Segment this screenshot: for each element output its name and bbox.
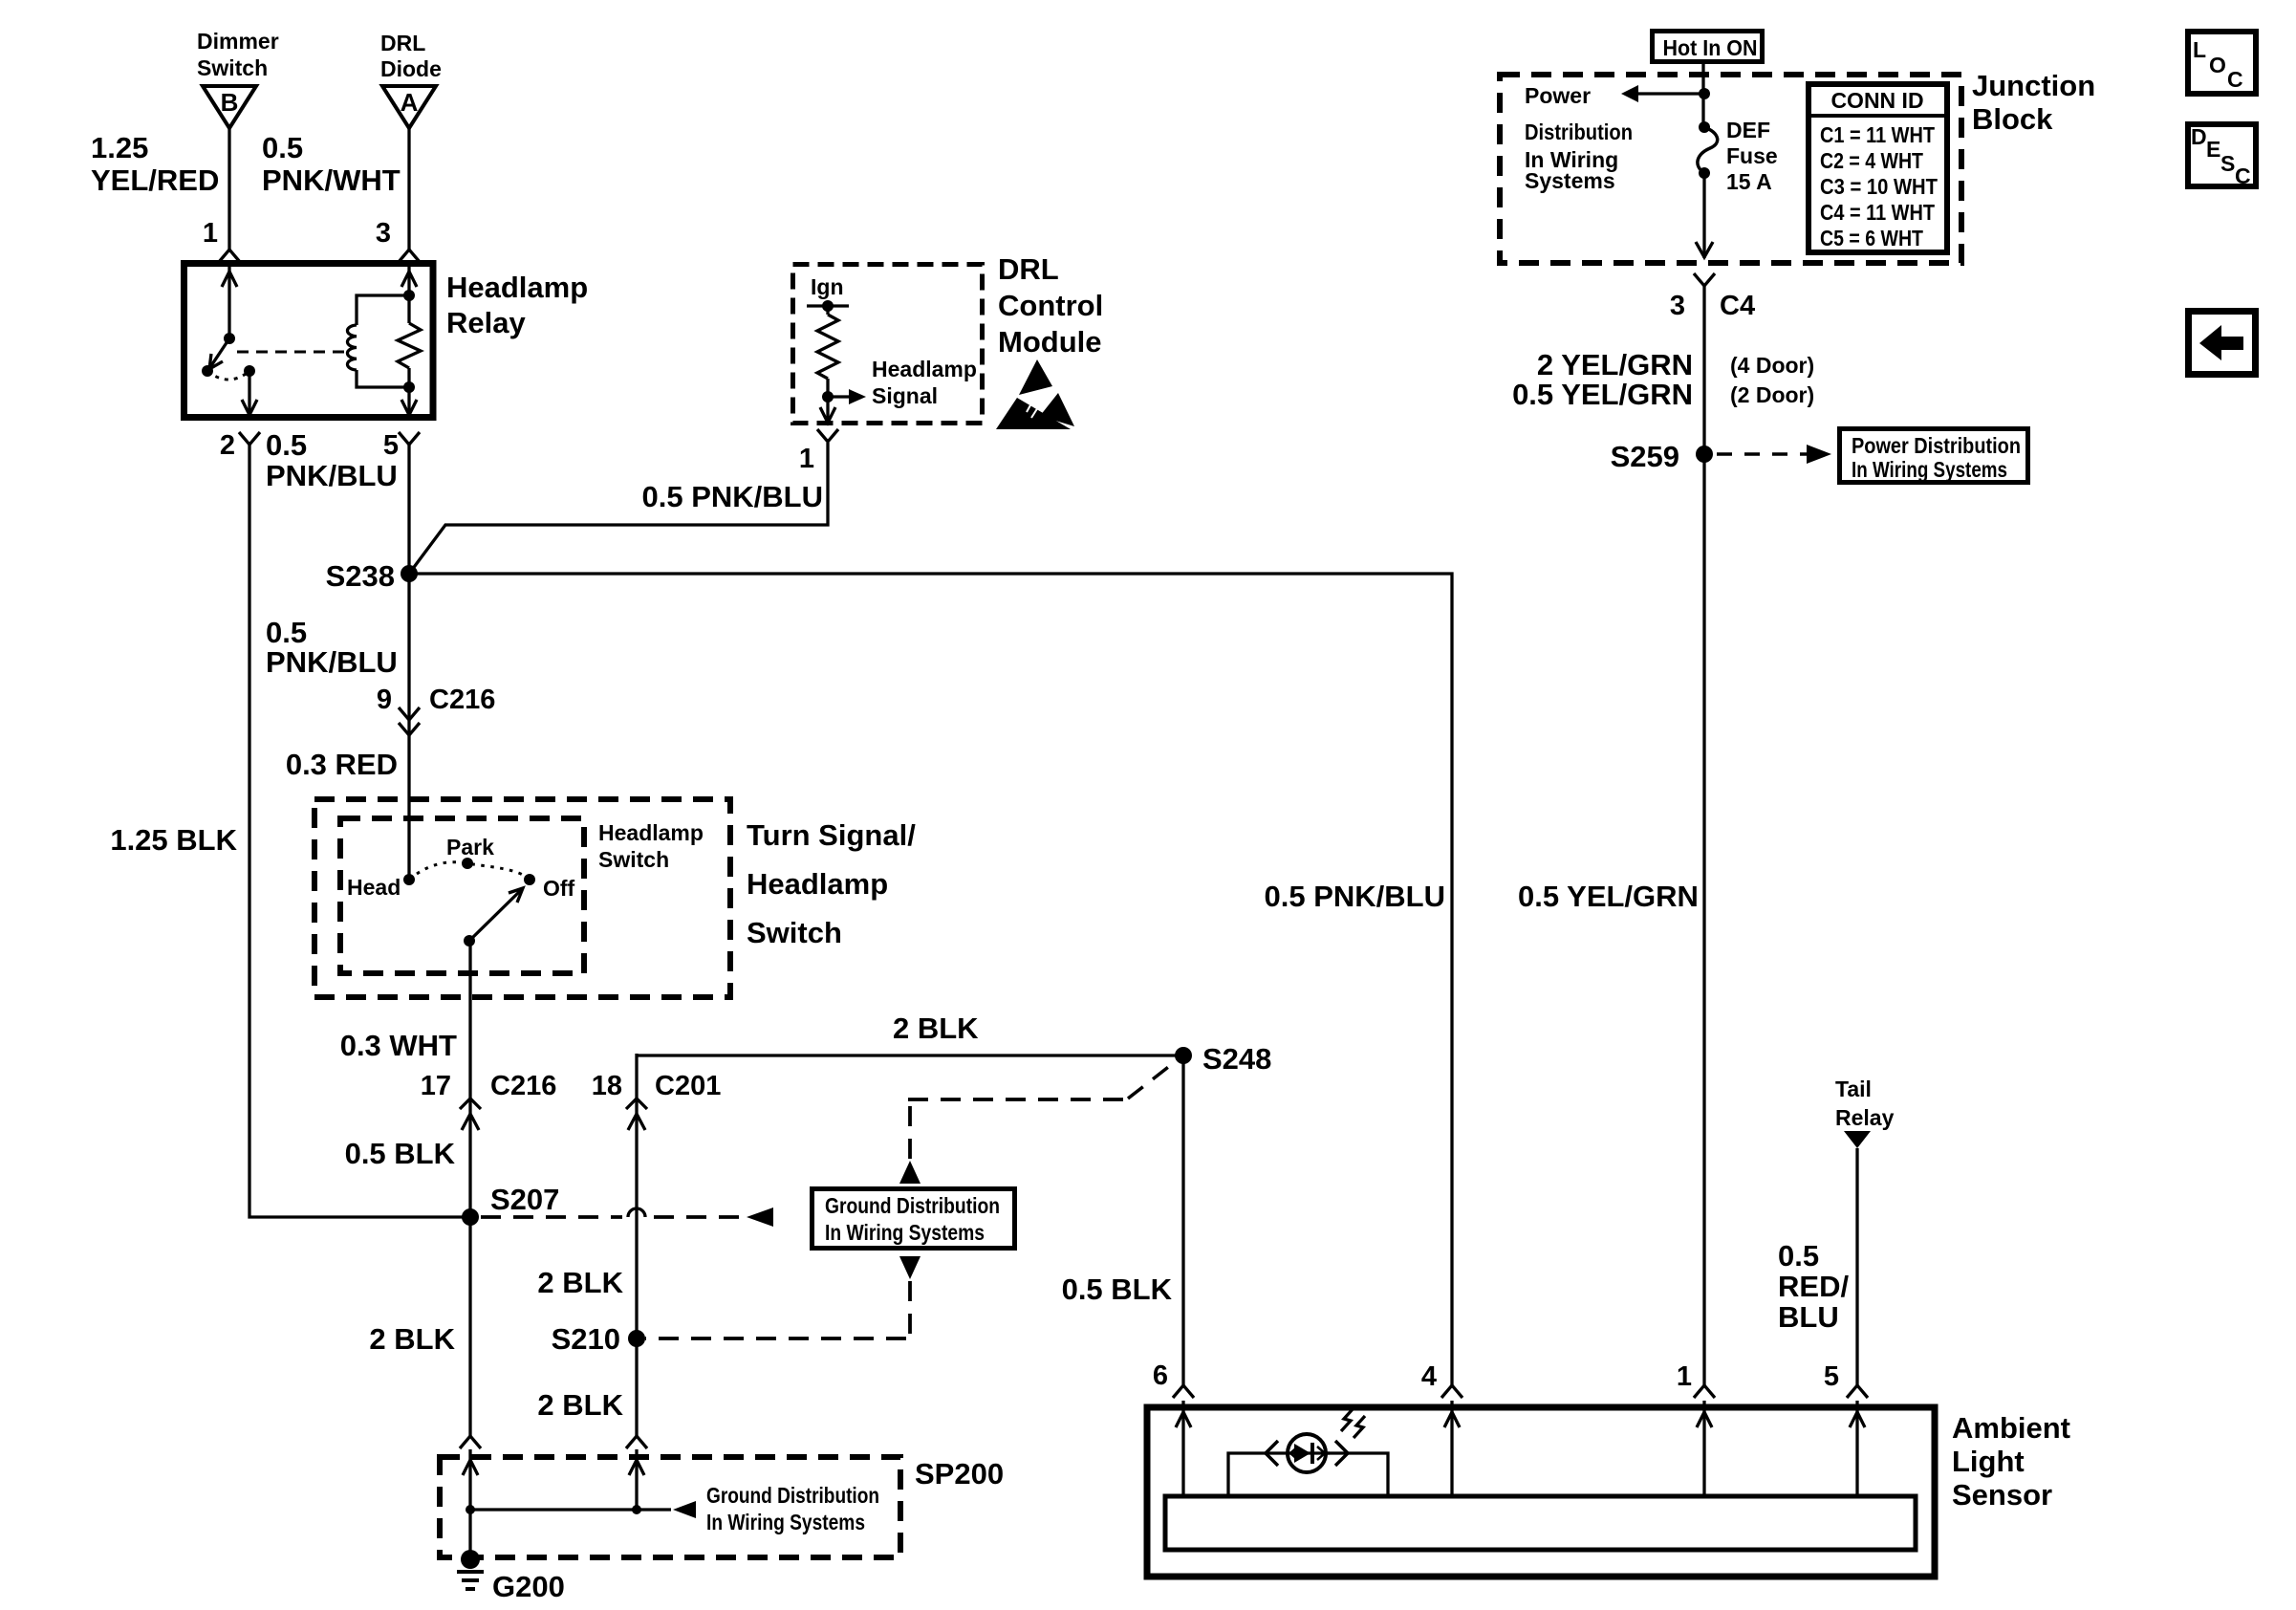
svg-text:SP200: SP200 (915, 1457, 1004, 1490)
svg-text:S259: S259 (1611, 440, 1679, 473)
tail relay feed triangle (1835, 1077, 1895, 1148)
DRL module pin 1 connector Y (817, 429, 838, 442)
sensor pin 1 connector Y (1694, 1385, 1715, 1398)
sensor pin 6 connector Y (1173, 1385, 1194, 1398)
svg-text:0.5: 0.5 (266, 428, 307, 462)
svg-text:9: 9 (377, 685, 392, 715)
back navigation arrow box (2189, 312, 2256, 375)
svg-text:S: S (2220, 151, 2235, 176)
connector C201 pin 18 (592, 1071, 722, 1130)
svg-text:3: 3 (376, 218, 391, 249)
svg-text:CONN ID: CONN ID (1830, 88, 1923, 113)
svg-text:Light: Light (1952, 1445, 2025, 1478)
svg-text:Headlamp: Headlamp (747, 867, 888, 901)
svg-text:Ambient: Ambient (1952, 1411, 2070, 1445)
connector C216 pin 17 (421, 1071, 557, 1130)
svg-text:Distribution: Distribution (1525, 120, 1633, 144)
switch contact Off (524, 874, 575, 901)
wire label 0.5 PNK/WHT (262, 131, 401, 197)
relay switch contact Head side (202, 365, 213, 377)
junction pin 3 connector Y (1694, 273, 1715, 286)
ambient light sensor label (1952, 1411, 2070, 1512)
Hot In ON tag box (1653, 32, 1763, 62)
svg-text:Power Distribution: Power Distribution (1852, 433, 2021, 458)
svg-text:C2 = 4 WHT: C2 = 4 WHT (1820, 148, 1923, 173)
node S259 (1696, 446, 1713, 463)
relay pin 3 internal arrow (401, 267, 417, 295)
relay coil actuation dashed link (237, 351, 344, 354)
svg-text:0.5: 0.5 (1778, 1239, 1819, 1273)
svg-text:PNK/WHT: PNK/WHT (262, 163, 401, 197)
power distribution reference box (S259) (1840, 429, 2028, 483)
sensor internal wire pin 6 with up arrow (1176, 1401, 1191, 1496)
ambient light sensor pin labels (1153, 1360, 1839, 1392)
sensor internal wire pin 4 with up arrow (1444, 1401, 1460, 1496)
svg-text:In Wiring Systems: In Wiring Systems (1852, 457, 2007, 482)
svg-text:In Wiring Systems: In Wiring Systems (706, 1510, 865, 1534)
wire S238 horizontal to ambient sensor pin 4 (409, 574, 1452, 1385)
wire 2 BLK horizontal to S248 (637, 1054, 1183, 1056)
LOC legend box (2188, 32, 2256, 94)
wire label 0.5 PNK/BLU below S238 (266, 616, 398, 679)
wire label 1.25 YEL/RED (91, 131, 219, 197)
svg-text:Switch: Switch (598, 847, 669, 872)
DRL module pin 1 internal down arrow (820, 397, 835, 424)
pin 5 connector Y (399, 432, 420, 445)
relay switch common contact (224, 333, 235, 344)
relay node top of coil (403, 290, 415, 301)
svg-text:E: E (2206, 137, 2220, 162)
SP200 entry chevron right (626, 1436, 647, 1448)
svg-text:18: 18 (592, 1071, 622, 1101)
wire 0.5 YEL/GRN junction to sensor pin 1 (1702, 286, 1705, 1385)
SP200 internal bus (466, 1501, 696, 1518)
svg-text:Switch: Switch (747, 916, 842, 949)
node S207 (462, 1208, 479, 1226)
svg-text:Block: Block (1972, 102, 2053, 136)
DRL module Ign pin stub (807, 274, 849, 312)
wire from Hot In ON into junction block (1701, 63, 1704, 127)
sensor pin 5 connector Y (1847, 1385, 1868, 1398)
switch wiper arm with arrowhead toward Off (464, 888, 523, 946)
svg-text:Head: Head (347, 875, 401, 900)
dashed reference S259 to power distribution box (1717, 445, 1831, 464)
svg-text:0.3 WHT: 0.3 WHT (340, 1029, 457, 1062)
svg-text:Tail: Tail (1835, 1077, 1872, 1101)
connector C216 pin 9 (377, 685, 495, 735)
junction block label (1972, 69, 2095, 136)
svg-text:0.5 YEL/GRN: 0.5 YEL/GRN (1512, 378, 1693, 411)
svg-text:Fuse: Fuse (1726, 143, 1778, 168)
svg-text:RED/: RED/ (1778, 1270, 1849, 1303)
node S238 (401, 565, 418, 582)
relay switch dashed travel arc (207, 371, 249, 380)
svg-text:C216: C216 (429, 685, 495, 715)
wire gauge labels 4 door / 2 door (1512, 348, 1814, 411)
svg-text:DRL: DRL (998, 252, 1059, 286)
svg-text:1: 1 (799, 444, 814, 474)
wire from triangle A to relay pin 3 (407, 128, 410, 250)
wire 0.5 RED/BLU tail relay to sensor pin 5 (1855, 1148, 1858, 1385)
svg-text:Ground Distribution: Ground Distribution (825, 1193, 1000, 1218)
svg-text:6: 6 (1153, 1360, 1168, 1391)
svg-text:Headlamp: Headlamp (446, 271, 588, 304)
svg-text:Switch: Switch (197, 55, 268, 80)
DRL control module dashed box (793, 265, 983, 424)
svg-text:S238: S238 (326, 559, 395, 593)
junction block dashed box (1500, 75, 1961, 263)
svg-text:S210: S210 (552, 1322, 620, 1356)
wire from triangle B to relay pin 1 (227, 128, 230, 250)
svg-text:5: 5 (383, 430, 399, 461)
svg-text:2: 2 (220, 430, 235, 461)
svg-text:Junction: Junction (1972, 69, 2095, 102)
relay resistor element (398, 295, 421, 387)
dashed reference S207 to ground distribution box (481, 1207, 773, 1227)
svg-text:2 BLK: 2 BLK (893, 1012, 979, 1045)
SP200 ground distribution note (706, 1483, 879, 1534)
photodiode leads to sensor substrate (1228, 1453, 1388, 1496)
headlamp switch inner dashed box (340, 818, 584, 973)
pin 1 connector chevron (219, 250, 240, 262)
switch contact Park (446, 835, 494, 869)
wire label 0.5 RED/BLU (1778, 1239, 1849, 1334)
headlamp relay label (446, 271, 588, 339)
svg-text:Turn Signal/: Turn Signal/ (747, 818, 916, 852)
pin 3 connector chevron (399, 250, 420, 262)
svg-text:A: A (401, 88, 419, 117)
DRL module headlamp signal arrow (828, 357, 977, 408)
svg-text:C5 = 6 WHT: C5 = 6 WHT (1820, 226, 1923, 250)
svg-text:3: 3 (1670, 291, 1685, 321)
svg-text:Park: Park (446, 835, 494, 859)
svg-text:Ign: Ign (811, 274, 844, 299)
node S210 (628, 1330, 645, 1347)
wire 2 BLK S210 down to SP200 (635, 1338, 638, 1436)
SP200 entry chevron left (460, 1436, 481, 1448)
svg-text:C1 = 11 WHT: C1 = 11 WHT (1820, 122, 1935, 147)
svg-text:PNK/BLU: PNK/BLU (266, 645, 398, 679)
relay switch contact pin2 side (244, 365, 255, 377)
svg-text:D: D (2191, 124, 2207, 149)
headlamp relay K box (184, 264, 434, 418)
svg-text:PNK/BLU: PNK/BLU (266, 459, 398, 492)
relay node bottom of coil (403, 381, 415, 393)
splice pack SP200 dashed box (440, 1457, 900, 1557)
relay coil branch (347, 295, 409, 387)
svg-text:0.3 RED: 0.3 RED (286, 748, 398, 781)
SP200 internal wire right with up arrow (629, 1449, 644, 1510)
photodiode D circle (1288, 1434, 1330, 1472)
svg-text:17: 17 (421, 1071, 451, 1101)
svg-text:BLU: BLU (1778, 1300, 1839, 1334)
wire label 0.5 PNK/BLU below pin 5 (266, 428, 398, 492)
wire S238 branch diagonal to DRL module (409, 443, 828, 574)
SP200 internal wire left with up arrow (463, 1449, 478, 1510)
ground G200 (457, 1510, 565, 1603)
DRL module internal resistor (817, 306, 838, 397)
junction fuse output wire with down arrow (1696, 173, 1713, 258)
pin 2 connector Y (239, 432, 260, 445)
svg-text:Diode: Diode (380, 56, 442, 81)
svg-text:4: 4 (1421, 1361, 1437, 1392)
svg-text:C: C (2235, 163, 2251, 188)
relay pin 5 internal wire and down arrow (401, 387, 417, 417)
svg-text:0.5 PNK/BLU: 0.5 PNK/BLU (642, 480, 823, 513)
connector triangle A (DRL Diode) (380, 31, 442, 128)
svg-text:Module: Module (998, 325, 1102, 359)
svg-text:Relay: Relay (1835, 1105, 1895, 1130)
svg-text:DEF: DEF (1726, 118, 1770, 142)
svg-text:1: 1 (203, 218, 218, 249)
ground distribution reference box (S207) (812, 1189, 1015, 1249)
relay pin 1 internal wire and arrow (222, 267, 237, 338)
svg-text:0.5 PNK/BLU: 0.5 PNK/BLU (1265, 880, 1445, 913)
svg-text:2 BLK: 2 BLK (369, 1322, 455, 1356)
junction pin 3 C4 labels (1670, 291, 1755, 321)
wire 0.5 PNK/BLU S238 down to headlamp switch (407, 574, 410, 880)
photodiode light rays (1341, 1409, 1365, 1438)
svg-text:1.25 BLK: 1.25 BLK (110, 823, 237, 857)
switch dotted travel arc (409, 862, 530, 880)
node S248 (1175, 1047, 1192, 1064)
svg-text:2 BLK: 2 BLK (537, 1388, 623, 1422)
DRL control module label (998, 252, 1103, 359)
svg-text:1.25: 1.25 (91, 131, 148, 164)
ambient light sensor inner substrate box (1165, 1496, 1916, 1550)
turn signal / headlamp switch outer dashed box (314, 799, 730, 997)
svg-text:Sensor: Sensor (1952, 1478, 2052, 1512)
svg-text:O: O (2209, 53, 2226, 77)
CONN ID table (1809, 84, 1947, 252)
svg-text:Signal: Signal (872, 383, 938, 408)
svg-text:G200: G200 (492, 1570, 565, 1603)
svg-text:1: 1 (1677, 1361, 1692, 1392)
svg-text:Off: Off (543, 876, 575, 901)
svg-text:0.5 BLK: 0.5 BLK (1062, 1273, 1173, 1306)
svg-text:Systems: Systems (1525, 168, 1615, 193)
sensor internal wire pin 5 with up arrow (1850, 1401, 1865, 1496)
junction power distribution note (1525, 83, 1633, 193)
svg-text:Relay: Relay (446, 306, 526, 339)
svg-text:2 YEL/GRN: 2 YEL/GRN (1537, 348, 1693, 381)
svg-text:Dimmer: Dimmer (197, 29, 279, 54)
svg-text:S248: S248 (1202, 1042, 1271, 1076)
photodiode side brackets (1266, 1441, 1348, 1466)
svg-text:L: L (2193, 37, 2206, 62)
svg-text:In Wiring Systems: In Wiring Systems (825, 1220, 985, 1245)
svg-text:2 BLK: 2 BLK (537, 1266, 623, 1299)
svg-text:C4 = 11 WHT: C4 = 11 WHT (1820, 200, 1935, 225)
svg-text:C201: C201 (655, 1071, 721, 1101)
svg-text:(4 Door): (4 Door) (1730, 353, 1814, 378)
DEF fuse 15 A (1698, 118, 1778, 194)
svg-text:C: C (2227, 67, 2243, 92)
wire 0.3 WHT from switch wiper down (468, 941, 471, 1217)
relay pin 2 internal wire and down arrow (242, 371, 257, 417)
svg-text:C216: C216 (490, 1071, 556, 1101)
headlamp switch sub-label (598, 820, 704, 872)
svg-text:C4: C4 (1720, 291, 1755, 321)
switch contact Head (347, 874, 415, 900)
relay switch arm with arrowhead (209, 338, 229, 369)
wire 0.5 PNK/BLU from relay pin 5 to S238 (407, 445, 410, 574)
svg-text:5: 5 (1824, 1361, 1839, 1392)
wire 2 BLK S207 down to SP200 (468, 1217, 471, 1436)
svg-text:Headlamp: Headlamp (598, 820, 704, 845)
svg-text:0.5 YEL/GRN: 0.5 YEL/GRN (1518, 880, 1699, 913)
svg-text:Control: Control (998, 289, 1103, 322)
svg-text:0.5 BLK: 0.5 BLK (345, 1137, 456, 1170)
svg-text:YEL/RED: YEL/RED (91, 163, 219, 197)
svg-text:Power: Power (1525, 83, 1591, 108)
DESC legend box (2188, 124, 2256, 188)
sensor pin 4 connector Y (1441, 1385, 1462, 1398)
DRL module headlamp signal node (822, 391, 834, 402)
svg-text:15 A: 15 A (1726, 169, 1772, 194)
junction internal feed arrow to power distribution (1621, 85, 1710, 102)
sensor internal wire pin 1 with up arrow (1697, 1401, 1712, 1496)
svg-text:0.5: 0.5 (266, 616, 307, 649)
turn signal / headlamp switch label (747, 818, 916, 949)
svg-text:S207: S207 (490, 1183, 559, 1216)
svg-text:(2 Door): (2 Door) (1730, 382, 1814, 407)
svg-text:C3 = 10 WHT: C3 = 10 WHT (1820, 174, 1938, 199)
svg-text:Ground Distribution: Ground Distribution (706, 1483, 879, 1508)
svg-text:B: B (221, 88, 239, 117)
wire 1.25 BLK from relay pin 2 down to S207 (249, 445, 470, 1217)
svg-text:Hot In ON: Hot In ON (1663, 35, 1758, 60)
svg-text:DRL: DRL (380, 31, 425, 55)
svg-text:0.5: 0.5 (262, 131, 303, 164)
connector triangle B (Dimmer Switch) (197, 29, 279, 128)
ESD sensitive device symbol (996, 359, 1074, 429)
ambient light sensor outer box (1147, 1407, 1935, 1577)
wire from corner to C201 pin 18 down to S210 (635, 1054, 638, 1338)
dashed reference arrows above and below ground box (645, 1061, 1176, 1338)
wire 0.5 BLK S248 down to sensor pin 6 (1181, 1055, 1184, 1385)
svg-text:Headlamp: Headlamp (872, 357, 977, 381)
